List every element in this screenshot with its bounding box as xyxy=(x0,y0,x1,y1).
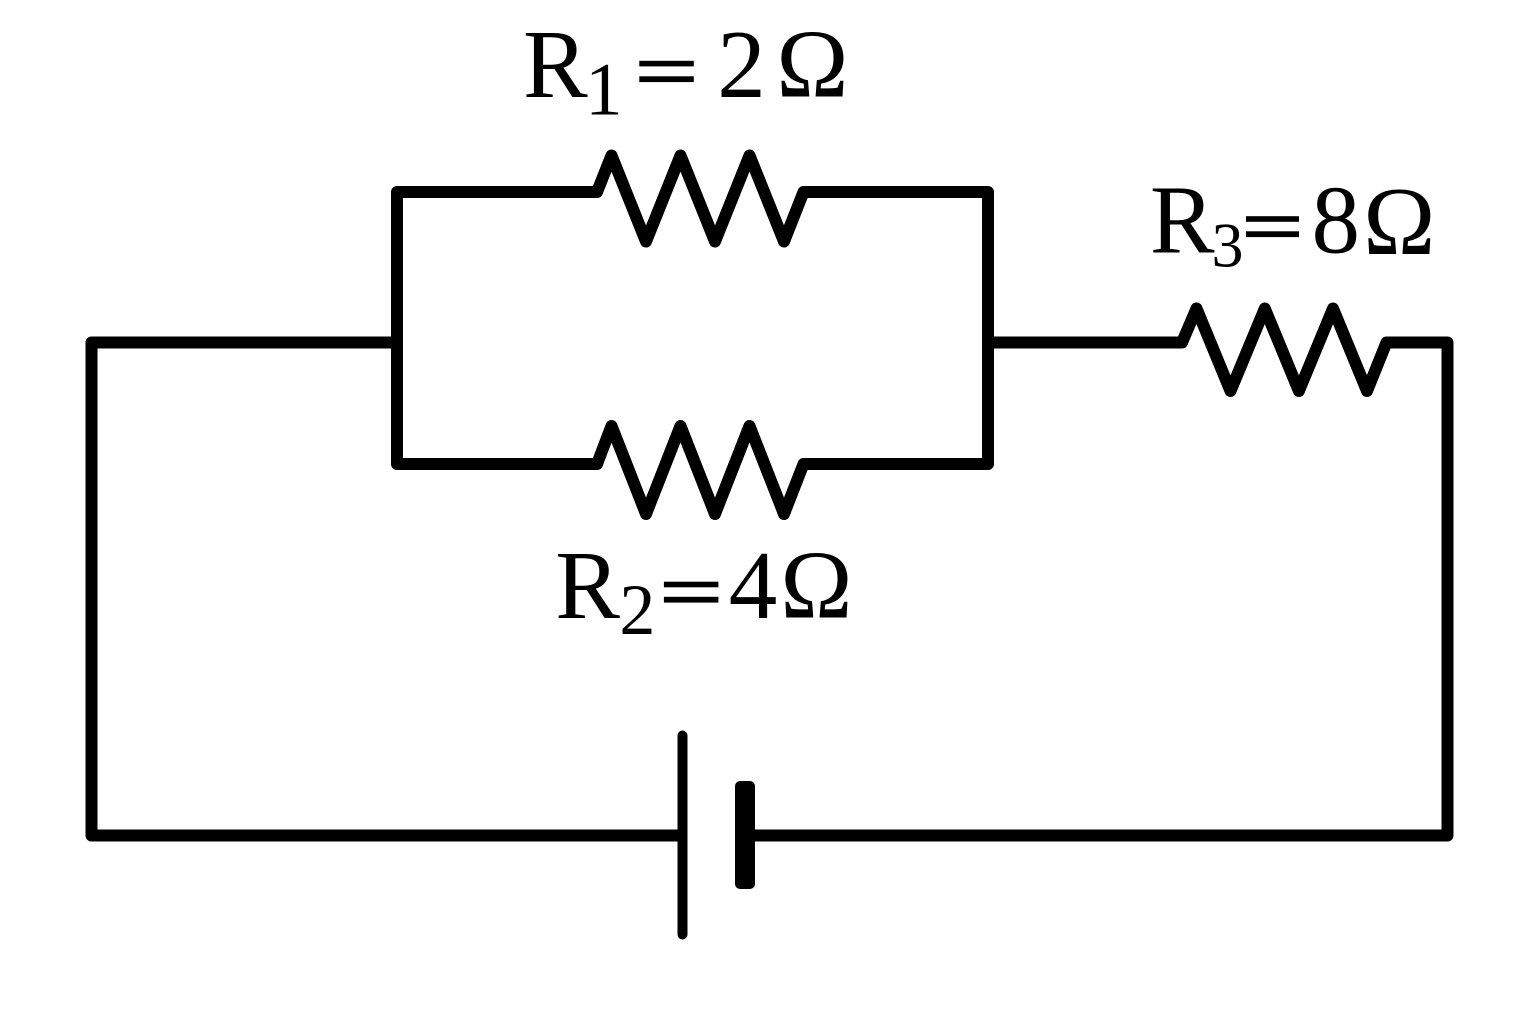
svg-text:3: 3 xyxy=(1212,210,1244,281)
svg-text:R: R xyxy=(555,532,620,639)
svg-text:4: 4 xyxy=(729,532,778,639)
svg-text:R: R xyxy=(523,11,588,118)
svg-text:Ω: Ω xyxy=(780,532,852,639)
svg-text:2: 2 xyxy=(717,11,766,118)
svg-text:1: 1 xyxy=(585,49,623,132)
svg-text:R: R xyxy=(1150,167,1215,274)
svg-text:2: 2 xyxy=(619,570,655,650)
svg-text:8: 8 xyxy=(1312,167,1361,274)
svg-text:Ω: Ω xyxy=(1363,168,1435,275)
svg-text:Ω: Ω xyxy=(776,11,848,118)
